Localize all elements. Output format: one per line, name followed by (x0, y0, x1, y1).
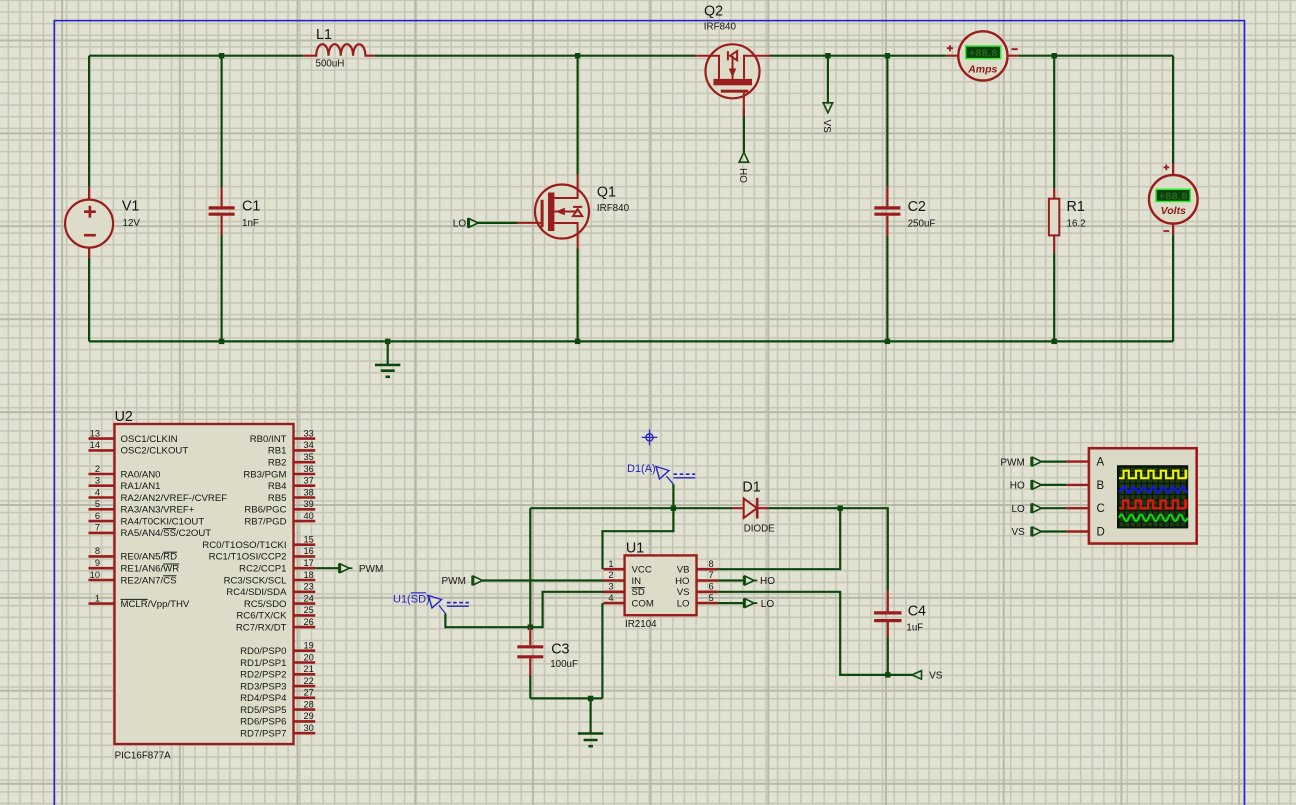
U2 pin 30 stub right (294, 732, 316, 735)
scope screen (1118, 466, 1188, 528)
wire bottom ground rail of driver (530, 697, 602, 699)
svg-text:RA0/AN0: RA0/AN0 (121, 469, 161, 480)
U2 pin 40 stub right (294, 520, 316, 523)
svg-text:2: 2 (608, 570, 613, 580)
U2 pin 37 stub right (294, 484, 316, 487)
wire VCC branch down-left to U1 pin1 (603, 508, 674, 569)
junction driver ground (588, 696, 593, 701)
svg-text:21: 21 (304, 664, 314, 674)
svg-text:HO: HO (760, 576, 775, 587)
wire scope input B (1042, 484, 1067, 486)
U2 pin 23 stub right (294, 590, 316, 593)
svg-text:LO: LO (453, 219, 467, 230)
svg-text:VS: VS (929, 671, 943, 682)
wire C1 top lead (221, 56, 223, 187)
U2 pin 9 stub left (89, 567, 115, 570)
svg-text:RC3/SCK/SCL: RC3/SCK/SCL (224, 575, 288, 586)
ground symbol driver circuit (578, 734, 603, 747)
capacitor C1 (209, 187, 235, 235)
svg-text:RE1/AN6/WR: RE1/AN6/WR (121, 564, 180, 575)
svg-text:RB6/PGC: RB6/PGC (244, 505, 286, 516)
svg-text:VCC: VCC (632, 565, 652, 576)
U2 pin 25 stub right (294, 614, 316, 617)
wire top rail V1 to L1 (89, 55, 303, 57)
svg-text:VS: VS (677, 587, 690, 598)
svg-text:VS: VS (1011, 527, 1025, 538)
svg-text:39: 39 (304, 499, 314, 509)
wire R1 top lead (1053, 56, 1055, 188)
svg-text:40: 40 (304, 511, 314, 521)
svg-text:R1: R1 (1067, 199, 1085, 215)
svg-text:OSC1/CLKIN: OSC1/CLKIN (121, 434, 178, 445)
wire ground stem driver (589, 698, 591, 733)
battery V1 (65, 187, 113, 258)
svg-text:RC5/SDO: RC5/SDO (244, 599, 287, 610)
wire VCC to C3 vertical (529, 508, 531, 627)
svg-text:26: 26 (304, 617, 314, 627)
svg-text:IRF840: IRF840 (597, 203, 630, 214)
wire C4 bottom lead (887, 637, 889, 675)
wire D1 cathode to C4 (768, 508, 888, 591)
svg-text:25: 25 (304, 605, 314, 615)
wire top rail Q2 to ammeter (770, 55, 947, 57)
svg-text:C: C (1097, 503, 1105, 515)
wire V1 top lead (88, 56, 90, 187)
U2 pin 20 stub right (294, 661, 316, 664)
svg-text:7: 7 (95, 523, 100, 533)
svg-text:RD6/PSP6: RD6/PSP6 (240, 717, 286, 728)
junction D1 anode node (671, 506, 676, 511)
svg-text:RA1/AN1: RA1/AN1 (121, 481, 161, 492)
diode D1 (733, 498, 769, 519)
terminal HO below Q2 gate (739, 152, 748, 162)
junction C1 bottom (219, 339, 224, 344)
svg-text:1uF: 1uF (906, 623, 923, 634)
U2 pin 19 stub right (294, 649, 316, 652)
svg-text:19: 19 (304, 641, 314, 651)
svg-text:RB1: RB1 (268, 446, 287, 457)
capacitor C2 (874, 187, 900, 236)
svg-text:3: 3 (608, 582, 613, 592)
wire voltmeter top lead (1172, 56, 1174, 163)
wire D1 anode rail (530, 507, 733, 509)
junction C2 bottom (885, 339, 890, 344)
U2 pin 1 stub left (89, 602, 115, 605)
voltage probe D1(A) (656, 467, 695, 485)
wire Q2 gate to HO terminal (743, 109, 745, 152)
svg-text:RC4/SDI/SDA: RC4/SDI/SDA (226, 587, 287, 598)
terminal LO output from U1 (743, 598, 745, 608)
terminal LO input at Q1 gate (467, 218, 469, 228)
U2 pin 14 stub left (89, 449, 115, 452)
U2 pin 27 stub right (294, 696, 316, 699)
svg-text:4: 4 (95, 487, 100, 497)
terminal scope input PWM (1030, 457, 1032, 467)
U2 pin 28 stub right (294, 708, 316, 711)
junction C2 top (885, 53, 890, 58)
svg-text:RA4/T0CKI/C1OUT: RA4/T0CKI/C1OUT (121, 516, 205, 527)
svg-text:D: D (1097, 526, 1105, 538)
svg-text:RB3/PGM: RB3/PGM (243, 469, 286, 480)
svg-text:Volts: Volts (1161, 205, 1186, 217)
svg-text:13: 13 (90, 428, 100, 438)
svg-text:RD4/PSP4: RD4/PSP4 (240, 693, 287, 704)
svg-text:14: 14 (90, 440, 100, 450)
junction R1 top (1052, 53, 1057, 58)
svg-text:8: 8 (709, 559, 714, 569)
svg-text:C3: C3 (551, 642, 569, 658)
svg-text:1: 1 (608, 559, 613, 569)
svg-text:37: 37 (304, 476, 314, 486)
wire bottom rail (89, 340, 1173, 342)
svg-text:8: 8 (95, 546, 100, 556)
svg-text:24: 24 (304, 593, 314, 603)
svg-text:5: 5 (709, 593, 714, 603)
wire Q1 drain (576, 56, 578, 175)
svg-text:U1(SD): U1(SD) (393, 593, 430, 605)
scope trace C red (1119, 501, 1186, 509)
svg-text:17: 17 (304, 558, 314, 568)
svg-text:VS: VS (821, 120, 832, 134)
svg-text:IN: IN (632, 576, 642, 587)
U2 pin 10 stub left (89, 579, 115, 582)
svg-text:IRF840: IRF840 (704, 22, 737, 33)
junction C3 top node (528, 625, 533, 630)
wire COM down from U1 pin4 (601, 603, 603, 698)
U2 pin 35 stub right (294, 461, 316, 464)
wire U1(SD) probe to SD pin (445, 592, 603, 627)
svg-text:MCLR/Vpp/THV: MCLR/Vpp/THV (121, 599, 190, 610)
svg-text:27: 27 (304, 688, 314, 698)
svg-text:LO: LO (761, 599, 775, 610)
svg-text:15: 15 (304, 535, 314, 545)
wire U2 PWM output (315, 567, 339, 569)
svg-text:IR2104: IR2104 (625, 619, 657, 630)
svg-text:29: 29 (304, 711, 314, 721)
U2 pin 24 stub right (294, 602, 316, 605)
svg-text:RC7/RX/DT: RC7/RX/DT (236, 622, 287, 633)
U2 pin 22 stub right (294, 685, 316, 688)
svg-text:RB2: RB2 (268, 458, 287, 469)
svg-text:35: 35 (304, 452, 314, 462)
U2 pin 17 stub right (294, 567, 316, 570)
wire top rail L1 to Q2 (375, 55, 696, 57)
svg-text:16.2: 16.2 (1067, 218, 1086, 229)
junction ground tap (385, 339, 390, 344)
U2 pin 33 stub right (294, 437, 316, 440)
wire PWM terminal to U1 IN (483, 579, 604, 581)
wire Q1 source (576, 249, 578, 342)
scope trace A yellow (1119, 471, 1186, 479)
svg-text:SD: SD (632, 587, 645, 598)
voltmeter Volts (1149, 163, 1198, 235)
svg-text:30: 30 (304, 723, 314, 733)
wire VB up branch (718, 508, 841, 569)
svg-text:RC2/CCP1: RC2/CCP1 (239, 564, 286, 575)
terminal HO output from U1 (743, 576, 745, 586)
junction C4 bottom VS node (885, 672, 890, 677)
transistor Q2 IRF840 (696, 44, 770, 116)
U2 pin 21 stub right (294, 673, 316, 676)
svg-text:RD7/PSP7: RD7/PSP7 (240, 729, 286, 740)
svg-text:6: 6 (95, 511, 100, 521)
svg-text:RB7/PGD: RB7/PGD (244, 516, 286, 527)
op-amp driver U1 IR2104 (604, 555, 718, 615)
svg-text:U1: U1 (626, 541, 644, 557)
terminal PWM input to U1 (471, 576, 473, 586)
junction VB bootstrap node (838, 506, 843, 511)
svg-text:22: 22 (304, 676, 314, 686)
svg-text:12V: 12V (123, 218, 141, 229)
svg-text:C4: C4 (908, 604, 926, 620)
wire V1 bottom lead (88, 258, 90, 341)
svg-text:Amps: Amps (967, 64, 997, 76)
svg-text:RD3/PSP3: RD3/PSP3 (240, 681, 286, 692)
svg-text:RE2/AN7/CS: RE2/AN7/CS (121, 575, 177, 586)
wire voltmeter bottom lead (1172, 235, 1174, 341)
svg-text:RC0/T1OSO/T1CKI: RC0/T1OSO/T1CKI (202, 540, 286, 551)
terminal PWM output from U2 (338, 563, 340, 573)
terminal VS tap output (823, 103, 832, 113)
svg-text:L1: L1 (316, 27, 332, 43)
svg-text:33: 33 (304, 428, 314, 438)
wire C2 bottom lead (886, 236, 888, 342)
svg-text:10: 10 (90, 570, 100, 580)
svg-text:HO: HO (1010, 481, 1025, 492)
U2 pin 26 stub right (294, 626, 316, 629)
junction Q1 source bottom (575, 339, 580, 344)
svg-text:B: B (1097, 480, 1105, 492)
terminal scope input LO (1030, 503, 1032, 513)
svg-text:18: 18 (304, 570, 314, 580)
svg-text:RD2/PSP2: RD2/PSP2 (240, 670, 286, 681)
svg-text:Q1: Q1 (597, 185, 616, 201)
svg-text:RB4: RB4 (268, 481, 287, 492)
svg-text:A: A (1097, 457, 1105, 469)
svg-text:16: 16 (304, 546, 314, 556)
svg-text:Q2: Q2 (704, 4, 723, 20)
svg-text:HO: HO (737, 168, 748, 183)
svg-text:COM: COM (632, 599, 654, 610)
ground symbol top circuit (375, 365, 400, 377)
svg-text:36: 36 (304, 464, 314, 474)
svg-text:5: 5 (95, 499, 100, 509)
svg-text:DIODE: DIODE (744, 524, 775, 535)
inductor L1 (303, 44, 375, 56)
U2 pin 39 stub right (294, 508, 316, 511)
terminal scope input HO (1030, 480, 1032, 490)
svg-text:RE0/AN5/RD: RE0/AN5/RD (121, 552, 178, 563)
wire scope input D (1042, 530, 1067, 532)
voltage probe U1(SD) (429, 596, 469, 614)
wire U1 LO to terminal (718, 602, 744, 604)
svg-text:RC1/T1OSI/CCP2: RC1/T1OSI/CCP2 (209, 552, 287, 563)
svg-text:D1(A): D1(A) (627, 463, 656, 475)
svg-text:LO: LO (677, 599, 690, 610)
svg-text:RD0/PSP0: RD0/PSP0 (240, 646, 286, 657)
svg-text:250uF: 250uF (908, 218, 936, 229)
resistor R1 (1049, 188, 1059, 252)
svg-text:V1: V1 (122, 199, 140, 215)
wire top rail ammeter to R1 node and corner (1018, 55, 1173, 57)
svg-text:+88.8: +88.8 (969, 47, 998, 59)
svg-text:RB5: RB5 (268, 493, 287, 504)
svg-text:C2: C2 (908, 199, 926, 215)
svg-text:2: 2 (95, 464, 100, 474)
U2 pin 2 stub left (89, 473, 115, 476)
U2 pin 16 stub right (294, 555, 316, 558)
svg-text:RD5/PSP5: RD5/PSP5 (240, 705, 286, 716)
wire LO terminal to Q1 gate (478, 222, 517, 224)
svg-text:VB: VB (677, 565, 690, 576)
junction C1 top (219, 53, 224, 58)
svg-text:RA3/AN3/VREF+: RA3/AN3/VREF+ (121, 505, 195, 516)
oscilloscope block (1066, 448, 1196, 543)
svg-text:20: 20 (304, 652, 314, 662)
U2 pin 5 stub left (89, 508, 115, 511)
svg-text:3: 3 (95, 476, 100, 486)
svg-text:+88.8: +88.8 (1159, 191, 1188, 203)
svg-text:RB0/INT: RB0/INT (250, 434, 287, 445)
svg-text:PWM: PWM (359, 564, 383, 575)
wire C3 bottom lead (529, 676, 531, 698)
svg-text:9: 9 (95, 558, 100, 568)
wire C2 top lead (886, 56, 888, 187)
U2 pin 7 stub left (89, 532, 115, 535)
wire VS net from U1 pin6 (718, 592, 912, 675)
wire ground stem top circuit (387, 341, 389, 364)
svg-text:500uH: 500uH (316, 59, 345, 70)
junction R1 bottom (1052, 339, 1057, 344)
U2 pin 29 stub right (294, 720, 316, 723)
U2 pin 4 stub left (89, 496, 115, 499)
U2 pin 8 stub left (89, 555, 115, 558)
svg-text:RA2/AN2/VREF-/CVREF: RA2/AN2/VREF-/CVREF (121, 493, 228, 504)
junction Q1 drain top (575, 53, 580, 58)
scope trace B blue (1119, 487, 1188, 493)
U2 pin 15 stub right (294, 543, 316, 546)
terminal scope input VS (1030, 527, 1032, 537)
origin marker crosshair (642, 430, 658, 446)
svg-text:1nF: 1nF (242, 218, 259, 229)
svg-text:28: 28 (304, 699, 314, 709)
svg-text:34: 34 (304, 440, 314, 450)
svg-text:PIC16F877A: PIC16F877A (115, 751, 172, 762)
U2 pin 36 stub right (294, 473, 316, 476)
svg-text:RD1/PSP1: RD1/PSP1 (240, 658, 286, 669)
transistor Q1 IRF840 (517, 175, 589, 249)
svg-text:LO: LO (1011, 504, 1025, 515)
svg-text:4: 4 (608, 593, 613, 603)
svg-text:D1: D1 (742, 480, 760, 496)
svg-text:HO: HO (675, 576, 689, 587)
junction VS tap (825, 53, 830, 58)
U2 pin 3 stub left (89, 484, 115, 487)
svg-text:U2: U2 (115, 409, 133, 425)
svg-text:C1: C1 (242, 199, 260, 215)
svg-text:RA5/AN4/SS/C2OUT: RA5/AN4/SS/C2OUT (121, 528, 212, 539)
wire U1 HO to terminal (718, 579, 744, 581)
wire VS tap (827, 56, 829, 104)
svg-text:23: 23 (304, 582, 314, 592)
wire scope input C (1042, 507, 1067, 509)
svg-text:OSC2/CLKOUT: OSC2/CLKOUT (121, 446, 189, 457)
svg-text:6: 6 (709, 582, 714, 592)
svg-text:38: 38 (304, 487, 314, 497)
U2 pin 13 stub left (89, 437, 115, 440)
svg-text:100uF: 100uF (550, 659, 578, 670)
microcontroller U2 PIC16F877A (115, 424, 294, 744)
wire scope input A (1042, 461, 1067, 463)
U2 pin 18 stub right (294, 579, 316, 582)
wire C1 bottom lead (221, 235, 223, 341)
scope trace D green (1119, 515, 1188, 521)
U2 pin 38 stub right (294, 496, 316, 499)
svg-text:7: 7 (709, 570, 714, 580)
svg-text:PWM: PWM (442, 576, 466, 587)
svg-text:PWM: PWM (1000, 457, 1024, 468)
svg-text:RC6/TX/CK: RC6/TX/CK (236, 611, 287, 622)
wire D1(A) probe stem (672, 484, 674, 508)
wire R1 bottom lead (1053, 252, 1055, 341)
U2 pin 6 stub left (89, 520, 115, 523)
U2 pin 34 stub right (294, 449, 316, 452)
capacitor C4 (874, 591, 901, 638)
ammeter Amps (946, 31, 1018, 80)
svg-text:1: 1 (95, 593, 100, 603)
terminal VS input right of C4 (912, 671, 922, 680)
capacitor C3 (517, 627, 543, 676)
